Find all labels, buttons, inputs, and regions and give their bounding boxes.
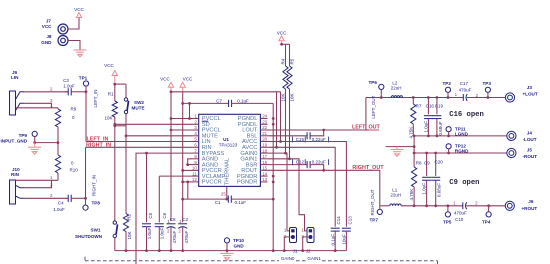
wire input ground (35, 142, 58, 144)
ground (TP10) (221, 253, 234, 260)
svg-text:LIN: LIN (11, 75, 19, 80)
wire RIGHT_IN vertical (85, 147, 87, 198)
wire J9 pin1 to R9 (16, 107, 59, 109)
svg-text:TPA3123: TPA3123 (219, 143, 238, 148)
svg-text:VCC: VCC (277, 31, 287, 36)
svg-text:C6: C6 (162, 212, 167, 218)
svg-text:+LOUT: +LOUT (523, 92, 538, 97)
svg-text:19: 19 (262, 143, 267, 148)
svg-text:C16: C16 (426, 104, 435, 109)
svg-text:24: 24 (262, 114, 267, 119)
svg-text:PGNDR: PGNDR (237, 180, 258, 186)
svg-text:LEFT_IN: LEFT_IN (93, 89, 98, 107)
svg-text:RIGHT_OUT: RIGHT_OUT (352, 165, 384, 171)
U1 left pin names (202, 116, 226, 185)
svg-text:C9: C9 (424, 160, 430, 165)
wire row18 GAIN0 to J1 (268, 153, 291, 231)
power VCC (rail 1) (160, 76, 174, 92)
resistor R8 4.75K (409, 153, 422, 207)
svg-text:C1: C1 (215, 200, 221, 205)
svg-text:16: 16 (262, 160, 267, 165)
wire LEFT_IN vertical (85, 92, 87, 142)
svg-text:SW2: SW2 (134, 100, 144, 105)
svg-text:0.1uF: 0.1uF (331, 234, 336, 246)
wire row12 PVCCR to C2 (183, 181, 192, 183)
testpoint TP6 (369, 80, 384, 99)
capacitor C15 0.22uF (268, 130, 329, 142)
testpoint TP5 (443, 204, 452, 224)
wire RGND row (414, 152, 507, 154)
svg-text:C13: C13 (347, 216, 352, 225)
power VCC (top-left) (74, 7, 84, 18)
svg-text:TP4: TP4 (482, 220, 491, 225)
svg-text:TP6: TP6 (369, 80, 378, 85)
svg-text:R8: R8 (416, 160, 422, 165)
svg-text:LEFT_OUT: LEFT_OUT (371, 95, 376, 118)
svg-text:INPUT_GND: INPUT_GND (1, 138, 28, 143)
wire row15 ROUT (268, 170, 380, 206)
svg-text:22: 22 (262, 125, 267, 130)
testpoint TP2 (443, 81, 452, 97)
svg-text:TP10: TP10 (233, 238, 244, 243)
svg-text:C3: C3 (63, 78, 69, 83)
svg-text:C5: C5 (148, 212, 153, 218)
svg-text:RIGHT_IN: RIGHT_IN (92, 175, 97, 196)
svg-text:1.0uF: 1.0uF (63, 83, 75, 88)
wire dashed boundary (85, 257, 438, 264)
svg-text:TP1: TP1 (79, 76, 88, 81)
U1 left pin stubs + numbers (192, 114, 199, 182)
svg-text:22uH: 22uH (391, 86, 402, 91)
capacitor C2 470uF (178, 217, 189, 251)
svg-text:18: 18 (262, 148, 267, 153)
svg-text:R7: R7 (416, 104, 422, 109)
svg-text:R9: R9 (71, 107, 77, 112)
wire LGND row (414, 135, 507, 137)
svg-text:C10: C10 (455, 217, 464, 222)
ground (input) (28, 147, 41, 154)
capacitor C1 0.1uF (181, 196, 273, 205)
node SD row junction (113, 123, 116, 126)
svg-text:C2: C2 (182, 217, 188, 222)
resistor R1 10K (104, 84, 117, 126)
inductor L1 22uH (390, 187, 401, 205)
power VCC (R1) (104, 63, 117, 84)
svg-text:470uF: 470uF (459, 87, 472, 92)
testpoint TP9 INPUT_GND (1, 131, 38, 143)
svg-text:C7: C7 (216, 98, 222, 103)
capacitor C8 470uF (167, 217, 178, 251)
svg-text:4.75K: 4.75K (409, 189, 414, 201)
svg-text:10uF: 10uF (342, 234, 347, 245)
svg-text:+ROUT: +ROUT (522, 206, 538, 211)
svg-text:25: 25 (221, 191, 226, 196)
svg-text:10K: 10K (104, 115, 112, 120)
op-amp U1 TPA3123 (199, 114, 261, 186)
wire SD to SW1 (114, 126, 116, 221)
resistor R2 10K (123, 214, 132, 251)
svg-text:11: 11 (192, 171, 197, 176)
wire J10 pin1 (16, 179, 59, 181)
svg-text:R1: R1 (108, 92, 114, 97)
connector J9 LIN (10, 70, 25, 115)
svg-text:0.1uF: 0.1uF (237, 98, 249, 103)
svg-text:SHUTDOWN: SHUTDOWN (75, 234, 103, 239)
U1 thermal pad pin 25 (221, 186, 227, 199)
wire AVCC drop 1 (276, 92, 278, 148)
wire row3 PVCCL (171, 129, 192, 131)
svg-text:1.0uF: 1.0uF (160, 227, 165, 239)
capacitor C9 1.0uF (422, 153, 432, 207)
wire J9 pin3 (24, 103, 52, 108)
svg-text:TP3: TP3 (483, 81, 492, 86)
svg-text:470uF: 470uF (184, 230, 189, 243)
svg-text:C4: C4 (58, 201, 64, 206)
svg-text:22uH: 22uH (390, 192, 401, 197)
svg-text:C12: C12 (296, 159, 305, 164)
wire MUTE net vertical2 (125, 126, 127, 214)
power VCC (rail 2) (180, 76, 193, 92)
svg-text:LGND: LGND (455, 132, 469, 137)
svg-text:R2: R2 (127, 214, 132, 220)
resistor R5 10K (287, 58, 295, 159)
capacitor C10 470uF (453, 200, 478, 221)
svg-text:J4: J4 (527, 130, 533, 135)
svg-text:C9 open: C9 open (449, 179, 479, 187)
svg-text:VCC: VCC (160, 76, 170, 81)
wire J7 to VCC (68, 17, 79, 29)
capacitor C4 (53, 195, 85, 212)
svg-text:GND: GND (41, 40, 52, 45)
capacitor C17 470uF (447, 81, 479, 101)
svg-text:TP2: TP2 (443, 81, 452, 86)
svg-text:470uF: 470uF (172, 230, 177, 243)
capacitor C6 1.0uF (155, 176, 167, 251)
inductor L2 22uH (389, 81, 405, 98)
svg-text:VCC: VCC (104, 63, 114, 68)
wire pullup tie (282, 43, 290, 45)
connector J8 (41, 34, 68, 45)
testpoint TP7 (370, 206, 383, 223)
wire left output (366, 97, 463, 99)
wire VCC rail (171, 91, 281, 93)
U1 right pin stubs + numbers (260, 114, 267, 182)
capacitor C14 0.1uF (331, 216, 342, 251)
connector J4 -LOUT (507, 130, 537, 141)
capacitor C3 (63, 78, 86, 95)
resistor R4 10K (281, 58, 288, 153)
wire row4 MUTE (126, 135, 192, 137)
wire row2 SD (115, 123, 192, 125)
U1 right pin names (237, 116, 258, 185)
svg-text:TP9: TP9 (19, 133, 28, 138)
svg-text:RIGHT_IN: RIGHT_IN (86, 143, 111, 149)
capacitor C20 0.68uF (431, 153, 443, 207)
svg-text:C20: C20 (435, 160, 444, 165)
resistor R10 (55, 143, 78, 181)
wire row8 AGND (188, 159, 192, 165)
wire VCC tie R1/SW2 (115, 83, 126, 85)
wire row11 VCLAMP to C6 (159, 175, 192, 177)
wire row10 PVCCR (183, 169, 192, 171)
svg-text:GND: GND (234, 244, 245, 249)
svg-text:J1: J1 (293, 249, 298, 254)
svg-text:J7: J7 (46, 19, 52, 24)
svg-text:PVCCR: PVCCR (202, 180, 222, 186)
connector J5 -ROUT (507, 148, 537, 159)
wire PGND vertical (272, 103, 274, 250)
svg-text:J6: J6 (528, 199, 534, 204)
wire row6 RIN (86, 146, 193, 148)
wire gnd tie (413, 136, 415, 153)
wire J10 pin2 to C4 (24, 197, 68, 199)
connector J10 RIN (10, 167, 25, 204)
power VCC (gain pullups) (277, 31, 287, 45)
svg-text:1.0uF: 1.0uF (53, 207, 65, 212)
svg-text:R5: R5 (290, 58, 295, 64)
testpoint TP8 (83, 198, 100, 210)
svg-text:0.68uF: 0.68uF (437, 183, 442, 197)
connector J3 +LOUT (505, 85, 537, 102)
svg-text:20: 20 (262, 137, 267, 142)
wire row19 AVCC to C14 (268, 147, 336, 227)
testpoint TP1 (79, 76, 89, 92)
testpoint TP4 (482, 204, 491, 224)
svg-text:10K: 10K (290, 93, 295, 101)
connector J6 +ROUT (505, 199, 537, 211)
wire ground rail (115, 250, 347, 252)
ground (output) (391, 150, 404, 157)
wire right output (380, 205, 390, 207)
wire PVCCR drop (187, 182, 189, 199)
jumper J2 GAIN1 (301, 227, 314, 253)
svg-text:21: 21 (262, 131, 267, 136)
wire row24 PGNDL (275, 146, 278, 149)
svg-text:12: 12 (192, 177, 197, 182)
capacitor C12 0.22uF (268, 159, 329, 170)
svg-text:RIGHT_OUT: RIGHT_OUT (370, 189, 375, 215)
svg-text:13: 13 (262, 177, 267, 182)
wire J9 pin2 to C3 (24, 91, 68, 93)
wire mute bottom tie (115, 125, 126, 127)
wire J2 pin2 to gnd (303, 237, 308, 251)
wire row5 LIN (86, 141, 192, 143)
svg-text:VCC: VCC (183, 76, 193, 81)
svg-text:GAIN0: GAIN0 (281, 256, 295, 261)
svg-text:C16 open: C16 open (449, 111, 484, 119)
capacitor C7 0.1uF (181, 93, 273, 223)
wire J10 pin3 (24, 180, 52, 187)
svg-text:RIN: RIN (11, 172, 20, 177)
svg-text:J2: J2 (306, 249, 311, 254)
svg-text:R10: R10 (70, 168, 79, 173)
wire VCC drop left (PVCCL/PVCCR feed) (170, 92, 172, 221)
svg-text:TP8: TP8 (92, 200, 101, 205)
svg-text:10: 10 (192, 166, 197, 171)
wire AVCC drop 2 (280, 92, 282, 142)
svg-text:1.0uF: 1.0uF (423, 121, 428, 133)
svg-text:-LOUT: -LOUT (523, 137, 537, 142)
svg-text:VCC: VCC (42, 24, 52, 29)
resistor R9 (55, 107, 76, 143)
resistor R7 4.75K (408, 96, 422, 138)
svg-text:470uF: 470uF (454, 211, 467, 216)
wire J8 to ground (68, 41, 80, 51)
svg-text:23: 23 (262, 120, 267, 125)
capacitor C13 10uF (342, 216, 353, 251)
svg-text:U1: U1 (223, 137, 229, 142)
jumper J1 GAIN0 (284, 227, 298, 253)
wire row22 LOUT (268, 98, 366, 131)
svg-text:TP5: TP5 (443, 220, 452, 225)
svg-text:J8: J8 (46, 34, 52, 39)
svg-text:RGND: RGND (455, 149, 469, 154)
svg-text:0.68uF: 0.68uF (438, 121, 443, 135)
node RIGHT_IN junction (84, 197, 87, 200)
svg-text:15: 15 (262, 166, 267, 171)
svg-text:0.1uF: 0.1uF (234, 200, 246, 205)
switch SW1 SHUTDOWN (75, 221, 118, 251)
svg-text:-ROUT: -ROUT (523, 154, 538, 159)
svg-text:C19: C19 (435, 104, 444, 109)
testpoint TP11 LGND (446, 127, 469, 137)
svg-text:TP7: TP7 (370, 218, 379, 223)
node LEFT_IN junction (85, 90, 88, 93)
svg-text:R4: R4 (281, 58, 286, 64)
wire row20 AVCC to C13 (268, 142, 347, 227)
ground (J8) (74, 50, 87, 57)
wire row17 GAIN1 to J2 (268, 159, 309, 231)
testpoint TP10 GND (224, 238, 244, 251)
svg-text:C8: C8 (170, 217, 176, 222)
svg-text:THERMAL: THERMAL (224, 158, 230, 185)
wire row9 AGND (186, 164, 192, 166)
capacitor C19 0.68uF (432, 96, 443, 136)
testpoint TP3 (483, 81, 492, 99)
svg-text:1.0uF: 1.0uF (422, 183, 427, 195)
wire row7 BYPASS to C5 (136, 153, 192, 264)
wire row1 PVCCL (171, 118, 192, 120)
capacitor C16 1.0uF (423, 96, 434, 136)
svg-text:MUTE: MUTE (132, 106, 145, 111)
connector J7 (42, 19, 68, 35)
svg-text:SW1: SW1 (91, 227, 101, 232)
svg-text:J5: J5 (527, 148, 533, 153)
svg-text:17: 17 (262, 154, 267, 159)
svg-text:VCC: VCC (74, 7, 84, 12)
testpoint TP12 RGND (446, 144, 469, 154)
svg-text:C17: C17 (460, 81, 469, 86)
svg-text:14: 14 (262, 171, 267, 176)
svg-text:10K: 10K (281, 93, 286, 101)
svg-text:C14: C14 (336, 216, 341, 225)
switch SW2 MUTE (124, 84, 144, 126)
svg-text:GAIN1: GAIN1 (307, 256, 321, 261)
svg-text:J3: J3 (527, 85, 533, 90)
svg-text:1.0uF: 1.0uF (147, 227, 152, 239)
svg-text:10K: 10K (127, 231, 132, 239)
svg-text:4.75K: 4.75K (408, 127, 413, 139)
capacitor C5 1.0uF (142, 153, 153, 251)
wire J1 pin2 to gnd (284, 237, 290, 251)
svg-text:0.22uF: 0.22uF (312, 159, 326, 164)
